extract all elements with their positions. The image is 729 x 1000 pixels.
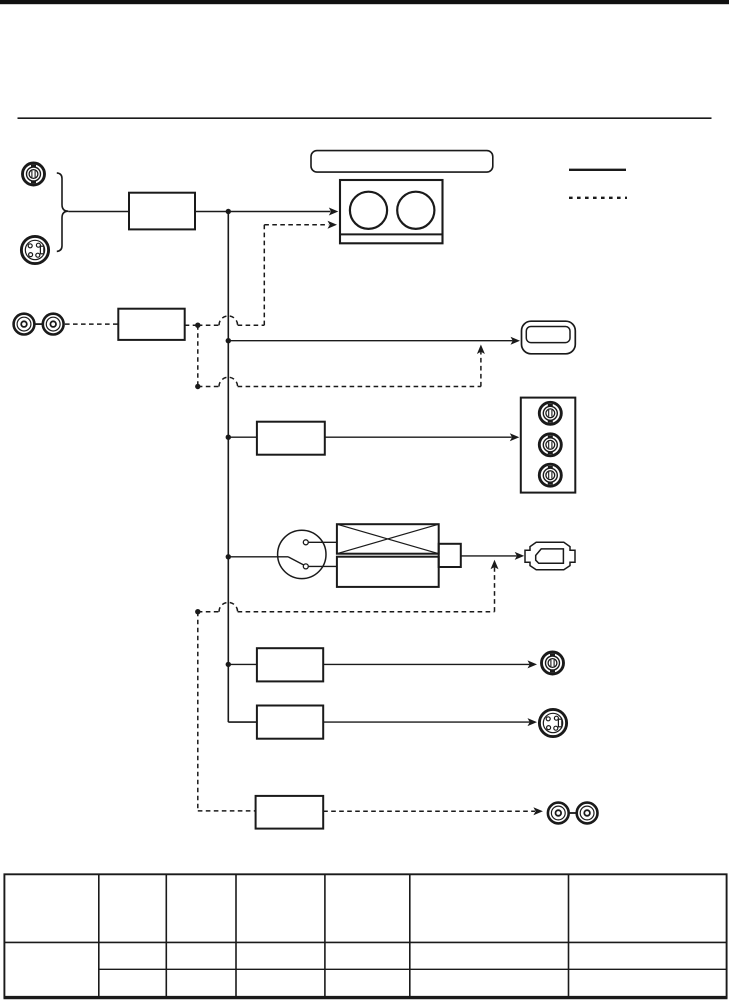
- wire box U4 to video jack with arrow: [323, 663, 529, 665]
- junction dot component branch: [226, 435, 231, 440]
- component jack Y: [539, 402, 561, 424]
- junction dot trunk top: [226, 209, 231, 214]
- link between jacks C and D: [35, 323, 43, 325]
- wire brace to box U1: [68, 211, 129, 213]
- dashed wire hop to display riser: [238, 386, 481, 388]
- table outer border: [4, 874, 726, 997]
- dashed elbow to box U6: [198, 810, 256, 812]
- dashed wire junction to hop 2: [198, 386, 219, 388]
- dashed wire into recorder with arrow: [264, 224, 328, 226]
- box U2: [118, 309, 184, 340]
- wire trunk into switch: [228, 556, 288, 558]
- table column line 5: [409, 874, 411, 997]
- audio jack H: [577, 803, 598, 824]
- table bottom thick border: [4, 996, 728, 999]
- recorder bottom strip line: [340, 233, 443, 235]
- dashed riser to display with up arrow: [480, 351, 482, 387]
- header black bar: [0, 0, 729, 4]
- dashed riser to rf output with up arrow: [494, 566, 496, 612]
- table column line 1: [98, 874, 100, 997]
- modulator crossed box: [337, 524, 439, 554]
- table header row line: [4, 941, 726, 943]
- wire trunk to box U4: [228, 663, 257, 665]
- wire box U1 to recorder with arrow: [195, 211, 331, 213]
- component video input jack A: [23, 163, 45, 185]
- brace joining jacks A and B: [57, 173, 69, 252]
- dashed wire junction to hop: [198, 324, 219, 326]
- table column line 4: [324, 874, 326, 997]
- mixer box: [337, 557, 439, 587]
- wire lower contact to mixer: [308, 565, 337, 567]
- s-video input jack B: [21, 236, 48, 263]
- hop over trunk (mid): [219, 377, 238, 386]
- display connector: [522, 321, 576, 354]
- recorder left reel: [350, 192, 387, 229]
- junction dot dashed net upper: [195, 323, 200, 328]
- dashed wire junction to hop 3: [198, 611, 219, 613]
- dashed wire box U6 to audio jacks with arrow: [323, 810, 535, 812]
- table column line 2: [165, 874, 167, 997]
- switch lever: [288, 557, 304, 565]
- component jack panel: [521, 398, 576, 493]
- wire trunk elbow to box U5: [228, 721, 257, 723]
- legend dashed line: [569, 197, 627, 199]
- box U1: [129, 193, 195, 230]
- s-video output jack F: [539, 709, 566, 736]
- wire box U5 to s-video jack with arrow: [323, 721, 529, 723]
- hop over trunk (upper): [219, 316, 238, 325]
- dashed wire hop to riser corner: [238, 324, 265, 326]
- wire trunk to display with arrow: [228, 340, 512, 342]
- audio jack G: [548, 803, 569, 824]
- legend solid line: [569, 169, 626, 171]
- box U6: [256, 796, 324, 829]
- component jack Pb: [539, 434, 561, 456]
- link between jacks G and H: [569, 812, 577, 814]
- rca jack D: [43, 314, 64, 335]
- dashed wire hop to rf riser: [238, 611, 495, 613]
- table column line 3: [235, 874, 237, 997]
- box U5: [257, 706, 323, 739]
- dashed riser wire up from audio path: [263, 225, 265, 325]
- recorder body: [340, 180, 443, 243]
- dashed trunk wire upper segment: [197, 325, 199, 386]
- dashed wire box U2 to junction: [185, 324, 198, 326]
- main solid trunk wire: [227, 212, 229, 723]
- box U4: [257, 648, 323, 681]
- table sub row line: [99, 968, 727, 970]
- box U3: [257, 422, 325, 455]
- switch body circle: [278, 530, 326, 578]
- junction dot dashed net mid: [195, 384, 200, 389]
- header rule: [18, 117, 712, 119]
- recorder right reel: [397, 192, 434, 229]
- switch contact upper: [303, 540, 308, 545]
- junction dot composite branch: [226, 662, 231, 667]
- composite video jack E: [542, 652, 564, 674]
- junction dot dashed rf: [195, 609, 200, 614]
- wire upper contact to modulator: [308, 541, 337, 543]
- wire tab to rf connector with arrow: [461, 555, 517, 557]
- junction dot rf branch: [226, 554, 231, 559]
- rca jack C: [14, 314, 35, 335]
- junction dot display branch: [226, 338, 231, 343]
- component jack Pr: [539, 464, 561, 486]
- rf d-connector: [525, 542, 575, 570]
- dashed wire jacks to box U2: [65, 323, 118, 325]
- switch contact lower: [303, 564, 308, 569]
- recorder label rounded box: [311, 151, 493, 173]
- dashed trunk wire lower segment: [197, 612, 199, 811]
- wire trunk to box U3: [228, 436, 257, 438]
- output tab: [439, 544, 461, 567]
- table column line 6: [568, 874, 570, 997]
- hop over trunk (rf): [219, 602, 238, 611]
- wire box U3 to component panel with arrow: [325, 436, 512, 438]
